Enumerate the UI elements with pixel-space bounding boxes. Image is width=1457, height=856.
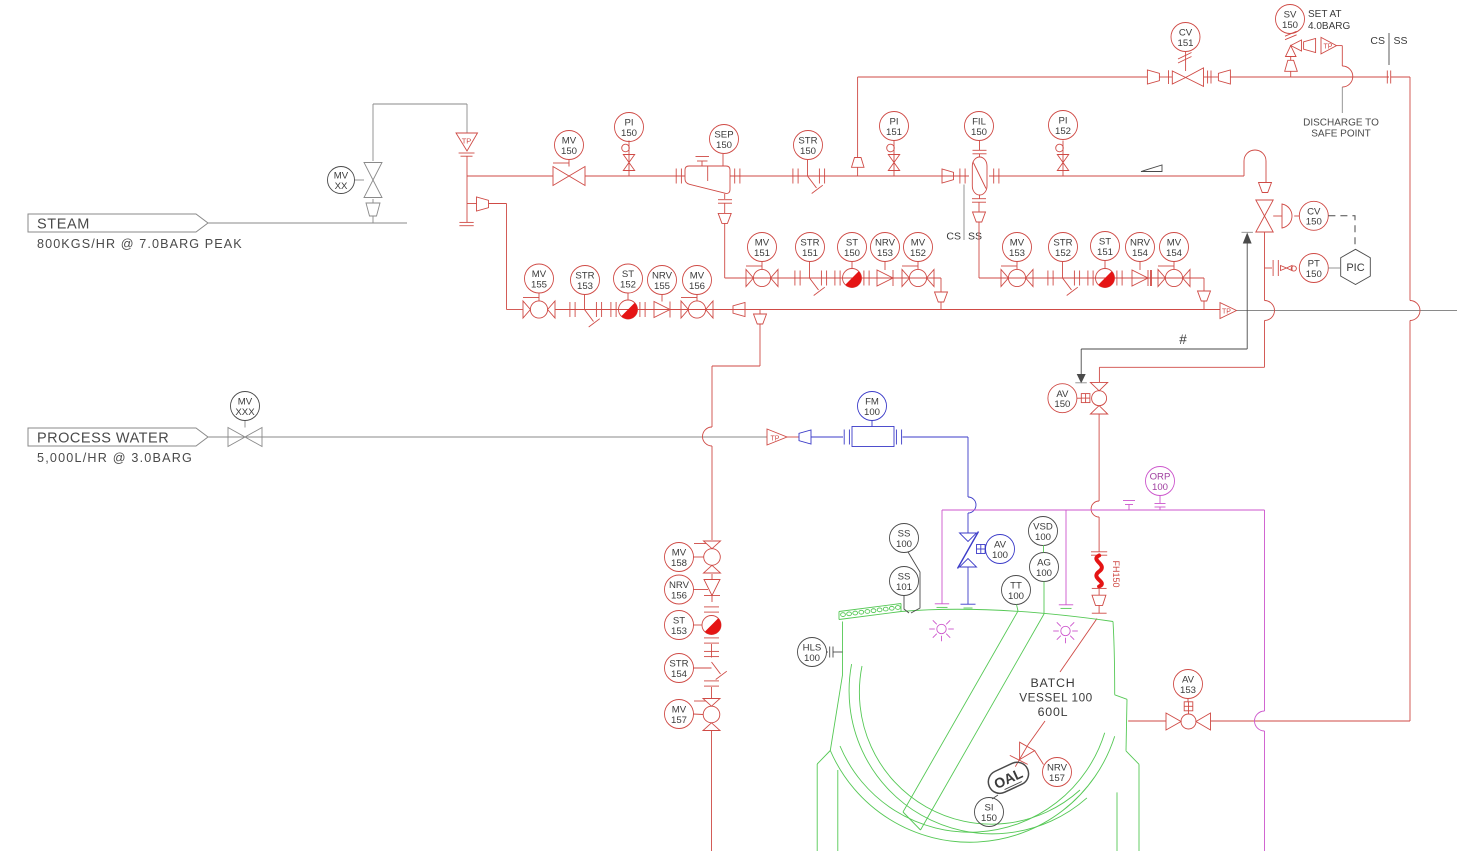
CV151 outlet breaks <box>1204 71 1219 84</box>
control valve CV150 <box>1256 200 1292 232</box>
valve MV156 <box>681 298 713 319</box>
svg-text:156: 156 <box>689 281 705 292</box>
vessel left legs <box>817 764 838 851</box>
svg-text:100: 100 <box>1008 591 1024 602</box>
tee to water mix line <box>703 310 767 541</box>
vessel label leader to nozzle <box>1060 619 1097 673</box>
instrument bubble PI152 <box>1049 111 1078 140</box>
instrument bubble SV150 <box>1276 5 1305 34</box>
valve MV XXX <box>228 421 262 447</box>
CV150 downcomer <box>1099 232 1274 382</box>
FH150 flexible hose leg <box>1091 414 1121 613</box>
instrument bubble AG100 <box>1030 545 1059 614</box>
svg-text:STEAM: STEAM <box>37 217 90 233</box>
steam header gray pipe <box>208 104 467 223</box>
svg-text:#: # <box>1179 332 1187 347</box>
vessel jacket outer shell <box>830 736 1114 842</box>
svg-text:100: 100 <box>804 653 820 664</box>
svg-text:154: 154 <box>671 669 688 680</box>
instrument bubble TT100 <box>1002 576 1031 612</box>
instrument bubble SEP150 <box>710 125 739 167</box>
instrument bubble SS100 <box>890 524 919 553</box>
vessel inner wall outer <box>849 664 1087 834</box>
vessel jacket inner shell <box>840 733 1105 833</box>
valve MV158 <box>694 541 721 573</box>
svg-text:150: 150 <box>1306 269 1322 280</box>
valve AV100 <box>958 532 986 569</box>
valve CV151 <box>1172 53 1203 87</box>
instrument bubble ORP100 <box>1146 467 1175 511</box>
svg-text:151: 151 <box>802 248 818 259</box>
slope symbol <box>1141 165 1162 172</box>
svg-text:157: 157 <box>671 715 687 726</box>
svg-text:157: 157 <box>1049 773 1065 784</box>
instrument bubble MV XXX <box>231 392 260 421</box>
valve MV151 <box>746 266 778 287</box>
instrument bubble STR151 <box>796 233 825 279</box>
svg-text:800KGS/HR @ 7.0BARG PEAK: 800KGS/HR @ 7.0BARG PEAK <box>37 237 243 251</box>
svg-text:100: 100 <box>1152 482 1168 493</box>
signal CV150 to PIC <box>1328 216 1355 249</box>
svg-text:152: 152 <box>1055 248 1071 259</box>
svg-text:BATCH: BATCH <box>1030 676 1075 690</box>
svg-text:151: 151 <box>1177 38 1193 49</box>
instrument bubble NRV155 <box>648 266 677 302</box>
svg-text:4.0BARG: 4.0BARG <box>1308 21 1350 32</box>
reducer above CV150 <box>1259 183 1272 193</box>
svg-text:FH150: FH150 <box>1111 560 1121 587</box>
instrument bubble MV150 <box>555 131 584 164</box>
instrument bubble STR150 <box>794 131 823 177</box>
instrument bubble AV150 <box>1048 384 1077 413</box>
check valve NRV156 <box>704 580 720 596</box>
svg-text:152: 152 <box>1055 126 1071 137</box>
instrument bubble CV151 <box>1171 23 1200 57</box>
instrument bubble AV100 <box>985 535 1014 564</box>
instrument bubble AV153 <box>1174 670 1203 702</box>
svg-text:XX: XX <box>335 181 348 192</box>
flow meter FM100 <box>811 427 968 447</box>
speed sensor leads <box>904 552 920 613</box>
instrument bubble NRV156 <box>665 575 709 604</box>
svg-text:5,000L/HR @ 3.0BARG: 5,000L/HR @ 3.0BARG <box>37 451 193 465</box>
instrument bubble MV158 <box>665 543 704 572</box>
CV151 inlet cone <box>1147 70 1159 84</box>
check valve NRV153 <box>877 270 893 286</box>
strainer STR154 <box>704 651 727 687</box>
svg-text:153: 153 <box>1180 685 1196 696</box>
svg-text:TP: TP <box>1222 309 1231 316</box>
svg-text:155: 155 <box>531 279 547 290</box>
svg-text:153: 153 <box>671 626 687 637</box>
instrument bubble MV156 <box>683 266 712 298</box>
svg-text:150: 150 <box>1282 20 1298 31</box>
instrument bubble MV151 <box>748 233 777 267</box>
check valve NRV155 <box>654 302 670 318</box>
steam trap ST150 <box>835 269 869 288</box>
vessel inner wall inner <box>859 666 1080 824</box>
check valve NRV154 <box>1132 270 1151 286</box>
svg-text:150: 150 <box>1306 217 1322 228</box>
interlock signal line <box>1075 232 1253 382</box>
PT150 to PIC wire <box>1328 267 1341 269</box>
vessel label leader <box>1028 721 1045 745</box>
svg-text:TP: TP <box>771 436 780 443</box>
svg-text:SS: SS <box>968 231 982 243</box>
reducer cone <box>942 169 954 183</box>
vessel label <box>1019 676 1092 719</box>
drain branch cone <box>467 197 507 310</box>
instrument bubble PI151 <box>880 112 909 141</box>
strainer STR151 <box>795 271 827 296</box>
gooseneck to CV150 <box>1244 150 1266 183</box>
svg-text:PIC: PIC <box>1346 262 1364 274</box>
vessel right wall <box>1113 622 1139 765</box>
instrument bubble MV152 <box>904 233 933 267</box>
svg-text:153: 153 <box>577 281 593 292</box>
instrument bubble MV XX <box>328 167 355 194</box>
vessel lamp nozzle 2 <box>1059 510 1073 608</box>
test point TP steam inlet <box>456 133 478 176</box>
strainer STR150 <box>793 169 825 194</box>
FIL150 drain leg <box>972 195 986 278</box>
instrument bubble MV154 <box>1160 233 1189 267</box>
svg-text:100: 100 <box>896 539 912 550</box>
test point TP water <box>767 429 799 445</box>
instrument bubble SS101 <box>890 567 919 596</box>
filter FIL150 <box>960 141 999 196</box>
spec break CS/SS mid <box>946 185 982 243</box>
valve MV XX <box>355 163 383 217</box>
vessel right legs <box>1117 764 1139 851</box>
PI151 gauge connection <box>887 141 900 177</box>
svg-text:154: 154 <box>1166 248 1183 259</box>
svg-text:152: 152 <box>620 279 636 290</box>
svg-text:CS: CS <box>1370 35 1385 47</box>
svg-text:XXX: XXX <box>235 407 255 418</box>
SEP150 drain leg <box>718 194 732 278</box>
svg-text:151: 151 <box>886 127 902 138</box>
svg-text:SET AT: SET AT <box>1308 9 1342 20</box>
svg-text:100: 100 <box>1035 532 1051 543</box>
svg-text:150: 150 <box>621 128 637 139</box>
PI152 gauge connection <box>1056 141 1069 177</box>
TP drain stub <box>459 176 473 226</box>
discharge note <box>1303 118 1379 140</box>
steam trap ST152 <box>611 300 645 319</box>
strainer STR152 <box>1048 271 1080 296</box>
svg-text:100: 100 <box>864 407 880 418</box>
svg-text:150: 150 <box>981 813 997 824</box>
vessel steam pipe <box>1128 77 1420 721</box>
svg-text:PROCESS WATER: PROCESS WATER <box>37 431 169 447</box>
instrument bubble PI150 <box>615 113 644 142</box>
svg-text:152: 152 <box>910 248 926 259</box>
STEAM source flag <box>28 214 243 251</box>
instrument bubble HLS100 <box>798 638 843 667</box>
spec break CS/SS top <box>1370 33 1410 84</box>
relief discharge line <box>1337 46 1353 113</box>
agitator shaft <box>903 611 1044 830</box>
vessel roof <box>901 609 1113 621</box>
svg-text:151: 151 <box>1097 247 1113 258</box>
vessel lamp nozzle 1 <box>935 510 949 607</box>
valve MV152 <box>902 266 934 287</box>
instrument bubble MV155 <box>525 264 554 298</box>
svg-text:150: 150 <box>800 146 816 157</box>
svg-text:101: 101 <box>896 582 912 593</box>
CV151 line <box>1159 70 1172 84</box>
svg-text:DISCHARGE TO: DISCHARGE TO <box>1303 118 1379 129</box>
svg-text:TP: TP <box>1324 44 1333 51</box>
process water gray pipe <box>208 436 767 438</box>
lamp symbol 2 <box>1053 622 1078 643</box>
steam trap ST151 <box>1088 269 1122 288</box>
svg-text:155: 155 <box>654 281 670 292</box>
svg-text:154: 154 <box>1132 248 1149 259</box>
instrument bubble SI150 <box>975 795 1004 827</box>
strainer STR153 <box>570 302 602 327</box>
bypass branch riser <box>852 77 1148 176</box>
valve MV150 <box>553 163 585 186</box>
instrument bubble MV157 <box>665 700 704 729</box>
instrument bubble STR154 <box>665 654 712 683</box>
water downcomer <box>968 437 976 533</box>
svg-text:SAFE POINT: SAFE POINT <box>1311 129 1370 140</box>
PROCESS WATER source flag <box>28 428 208 465</box>
lamp symbol 1 <box>929 620 954 641</box>
svg-text:600L: 600L <box>1038 705 1069 719</box>
CV151 outlet cone <box>1218 70 1389 84</box>
svg-text:150: 150 <box>844 248 860 259</box>
svg-text:150: 150 <box>971 127 987 138</box>
water mix pipe segments <box>711 574 714 851</box>
vessel charge-hole strip <box>839 604 901 620</box>
instrument bubble ST151 <box>1091 232 1120 269</box>
instrument bubble STR153 <box>571 266 600 310</box>
svg-text:153: 153 <box>877 248 893 259</box>
sample header line <box>942 510 1265 851</box>
steam main pipe <box>467 175 1244 177</box>
instrument bubble ST150 <box>838 233 867 269</box>
svg-text:100: 100 <box>1036 568 1052 579</box>
instrument bubble ST153 <box>665 611 703 640</box>
instrument bubble FIL150 <box>965 112 994 141</box>
manifold outlet cone <box>733 303 745 317</box>
svg-text:SS: SS <box>1394 35 1408 47</box>
svg-text:151: 151 <box>754 248 770 259</box>
controller PIC hexagon <box>1341 249 1371 284</box>
check valve NRV157 <box>1010 742 1044 767</box>
svg-text:156: 156 <box>671 590 687 601</box>
instrument bubble VSD100 <box>1029 517 1058 546</box>
steam trap ST153 <box>702 607 721 643</box>
svg-text:150: 150 <box>561 146 577 157</box>
sample point symbol <box>1123 501 1135 511</box>
svg-text:150: 150 <box>716 140 732 151</box>
SV150 setpoint note <box>1308 9 1350 32</box>
instrument bubble NRV157 <box>1043 758 1072 787</box>
water dip pipe <box>961 567 976 608</box>
instrument bubble NRV153 <box>871 233 900 271</box>
condensate manifold pipe <box>507 309 1221 311</box>
instrument bubble FM100 <box>858 392 887 427</box>
instrument bubble PT150 <box>1299 254 1328 283</box>
svg-text:TP: TP <box>462 137 472 146</box>
svg-text:CS: CS <box>946 231 961 243</box>
instrument bubble STR152 <box>1049 233 1078 279</box>
valve MV154 <box>1158 266 1190 287</box>
instrument bubble MV153 <box>1003 233 1032 267</box>
pressure tap to PT150 <box>1265 260 1297 276</box>
valve MV155 <box>523 298 555 319</box>
vessel left wall <box>817 622 842 765</box>
PI150 gauge connection <box>622 141 635 177</box>
condensate branch A pipe <box>725 278 948 310</box>
valve MV157 <box>694 699 720 731</box>
oil alarm OAL <box>985 758 1033 797</box>
svg-text:153: 153 <box>1009 248 1025 259</box>
separator SEP150 <box>676 157 740 194</box>
condensate off-sheet gray pipe <box>1237 310 1457 312</box>
relief valve SV150 <box>1285 31 1337 77</box>
svg-text:VESSEL 100: VESSEL 100 <box>1019 691 1092 705</box>
instrument bubble NRV154 <box>1126 233 1155 271</box>
instrument bubble CV150 <box>1294 201 1328 230</box>
condensate branch B pipe <box>979 278 1211 310</box>
valve AV150 <box>1077 382 1108 414</box>
valve MV153 <box>1001 266 1033 287</box>
svg-text:100: 100 <box>992 550 1008 561</box>
instrument bubble ST152 <box>614 264 643 300</box>
test point TP condensate <box>1220 303 1237 319</box>
svg-text:150: 150 <box>1054 399 1070 410</box>
svg-text:158: 158 <box>671 558 687 569</box>
valve AV153 <box>1166 702 1211 730</box>
water expander cone <box>799 430 811 444</box>
